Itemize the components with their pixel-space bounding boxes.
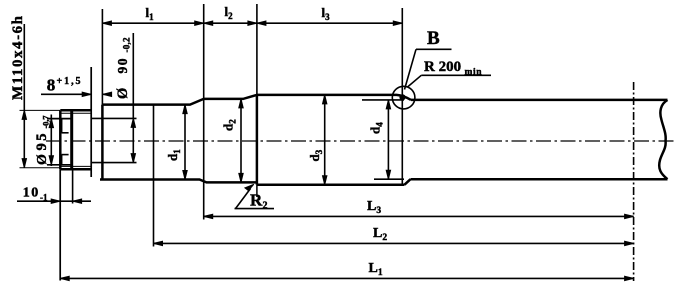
groove left wall upper xyxy=(61,119,63,133)
M110 bottom extension stub xyxy=(20,167,61,169)
d4 bottom arrow xyxy=(386,170,390,179)
d1 dimension line xyxy=(184,105,186,180)
L3 dimension line xyxy=(204,215,634,217)
B label leader line xyxy=(405,49,417,89)
Ø90 top arrow xyxy=(131,118,135,127)
Ø95 bottom arrow xyxy=(49,156,53,165)
extension line above step (l2/l3 boundary) xyxy=(256,4,258,95)
groove inner step upper xyxy=(62,132,69,134)
relief groove bottom line / Ø90 extension xyxy=(91,162,136,164)
svg-text:-0,2: -0,2 xyxy=(122,37,132,53)
detail B circle around R200 transition xyxy=(392,86,415,109)
d2 bottom arrow xyxy=(239,173,243,182)
groove left wall lower xyxy=(61,155,63,165)
centerline (shaft axis, dash-dot) xyxy=(46,140,674,142)
d2 dimension line xyxy=(240,99,242,182)
8+1,5 dimension line (left part) xyxy=(41,93,91,95)
L2 left arrow xyxy=(154,241,163,245)
svg-text:R 200: R 200 xyxy=(424,59,461,75)
8+1,5 arrow pointing left at shoulder xyxy=(103,92,112,96)
l3 left arrow xyxy=(257,21,266,25)
svg-text:l3: l3 xyxy=(322,5,331,22)
extension line below groove wall for 10-1 xyxy=(72,170,74,204)
L1 left arrow xyxy=(60,276,69,280)
8+1,5 dimension line (right stub) xyxy=(103,93,111,95)
10-1 right arrow (pointing left at groove wall) xyxy=(73,199,82,203)
R200min shelf xyxy=(421,74,491,76)
Ø95 dimension line xyxy=(50,115,52,167)
M110 bottom arrow xyxy=(22,159,26,168)
svg-text:Ø: Ø xyxy=(115,88,131,99)
d1 section bottom profile with taper to d2 xyxy=(100,180,257,183)
l1 dimension line xyxy=(102,22,203,24)
svg-text:d2: d2 xyxy=(221,119,238,131)
L3 right arrow xyxy=(625,214,634,218)
d1 bottom arrow xyxy=(183,171,187,180)
svg-text:Ø: Ø xyxy=(35,154,50,165)
d4 bottom extension stub (for d4 dimension) xyxy=(374,178,404,180)
L2 dimension line xyxy=(154,242,634,244)
thread section right face / 8+1,5 left extension line xyxy=(90,67,92,177)
d1 top arrow xyxy=(183,105,187,114)
svg-text:L2: L2 xyxy=(373,226,387,243)
svg-text:L3: L3 xyxy=(367,199,381,216)
l2 dimension line xyxy=(204,22,257,24)
wire: shaft end face xyxy=(59,110,62,169)
node: junction blob at circle center xyxy=(399,94,405,100)
extension below step face xyxy=(256,185,258,197)
d4 dimension line xyxy=(387,100,389,179)
B label shelf xyxy=(416,48,452,50)
groove inner step lower xyxy=(62,154,69,156)
d4 top extension stub (for d4 dimension) xyxy=(362,99,404,101)
l3 dimension line xyxy=(257,22,402,24)
svg-text:d3: d3 xyxy=(307,149,324,161)
thread end thick bar xyxy=(70,110,73,169)
svg-text:B: B xyxy=(427,28,440,49)
groove (lock-washer slot) top edge + Ø95 extension line xyxy=(47,118,73,120)
Ø90-0,2 dimension line (relief groove dia) xyxy=(132,33,134,163)
wire: thread minor dia bottom (thin) xyxy=(60,165,91,167)
R2 shelf xyxy=(235,208,275,210)
svg-text:90: 90 xyxy=(115,58,130,73)
l1 left arrow xyxy=(102,21,111,25)
R2 arrowhead at fillet xyxy=(245,184,254,190)
l3 right arrow xyxy=(393,21,402,25)
wire: thread crest bottom line xyxy=(60,168,91,171)
svg-text:d4: d4 xyxy=(368,122,385,134)
d3 bottom arrow xyxy=(323,176,327,185)
L1 right arrow xyxy=(625,276,634,280)
svg-text:+1,5: +1,5 xyxy=(57,76,81,87)
l2 left arrow xyxy=(204,21,213,25)
svg-text:8: 8 xyxy=(47,76,56,95)
wire: thread crest top line xyxy=(60,109,91,112)
extension line (thread runout) down to L2 xyxy=(153,104,155,247)
groove bottom edge + Ø95 extension line xyxy=(47,164,73,166)
svg-text:l1: l1 xyxy=(146,5,155,22)
l1 right arrow xyxy=(195,21,204,25)
d2 top arrow xyxy=(239,99,243,108)
chamfer at d3/d4 bottom step xyxy=(405,179,411,185)
shoulder face d1 / extension line for l1 and 8+1,5 xyxy=(101,9,103,105)
L1 dimension line xyxy=(60,277,633,279)
d1 section top profile with taper to d2 xyxy=(102,95,257,105)
svg-text:l2: l2 xyxy=(225,4,234,21)
d3 top line with R200 transition curve to d4 xyxy=(257,95,411,100)
wire: thread minor dia top (thin) xyxy=(60,112,91,114)
M110 top extension stub xyxy=(20,109,61,111)
svg-text:-1: -1 xyxy=(40,193,48,203)
extension line for l1/l2 boundary down to L3 xyxy=(203,4,205,220)
svg-text:10: 10 xyxy=(23,186,39,201)
svg-text:R: R xyxy=(250,191,263,210)
d4 top arrow xyxy=(386,100,390,109)
Ø90 bottom arrow xyxy=(131,154,135,163)
svg-text:L1: L1 xyxy=(369,261,383,278)
step face d2/d3 xyxy=(256,95,259,185)
relief groove top line / Ø90 extension xyxy=(91,117,136,119)
break line (wavy) at right end xyxy=(659,100,667,179)
Ø95 top arrow xyxy=(49,119,53,128)
d3 bottom line xyxy=(257,183,405,186)
L3 left arrow xyxy=(204,214,213,218)
l2 right arrow xyxy=(248,21,257,25)
8+1,5 arrow pointing right at groove left edge xyxy=(82,92,91,96)
R2 fillet leader arrow xyxy=(236,188,251,208)
R200min leader line xyxy=(408,75,422,87)
svg-text:-0,7: -0,7 xyxy=(41,115,51,129)
svg-text:d1: d1 xyxy=(165,149,182,161)
10-1 left arrow (pointing right at end face) xyxy=(51,199,60,203)
svg-text:95: 95 xyxy=(34,134,50,151)
L2 right arrow xyxy=(625,241,634,245)
d4 top line xyxy=(411,99,668,102)
d3 top arrow xyxy=(323,95,327,104)
10-1 dimension line xyxy=(17,200,91,202)
svg-text:2: 2 xyxy=(263,201,268,212)
d4 bottom line xyxy=(411,178,668,181)
M110 dimension line xyxy=(23,24,25,168)
d3 dimension line xyxy=(324,95,326,185)
extension line l3 right / through shaft at transition xyxy=(401,8,403,185)
right common extension line for L1 L2 L3 (dashed) xyxy=(633,82,635,281)
M110 top arrow xyxy=(22,110,26,119)
extension line from end face down to L1 xyxy=(59,169,61,280)
svg-text:min: min xyxy=(465,68,483,78)
